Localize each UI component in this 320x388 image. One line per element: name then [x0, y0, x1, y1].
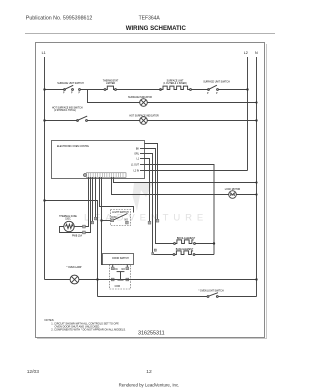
- svg-text:L1 OUT: L1 OUT: [131, 165, 140, 167]
- svg-text:L2: L2: [244, 51, 248, 55]
- wire stub GRL to bake element: [145, 154, 174, 255]
- svg-text:HOT SURFACE IND SWITCH: HOT SURFACE IND SWITCH: [52, 107, 83, 110]
- wire to light switch COM: [102, 220, 111, 222]
- oven light switch S4: [199, 290, 224, 297]
- svg-text:(1 OUTER & 1 INNER): (1 OUTER & 1 INNER): [163, 83, 187, 85]
- svg-text:COM: COM: [115, 286, 120, 288]
- wire stub L2 IN to L2 bus: [145, 170, 248, 172]
- svg-text:TEF364A: TEF364A: [139, 16, 161, 22]
- junction rung1-L2: [246, 88, 248, 90]
- lamp surface indicator: [128, 96, 152, 106]
- wire N bus: [256, 57, 258, 297]
- wire bottom rung: [45, 279, 71, 281]
- junction lamp bus: [96, 278, 98, 280]
- svg-text:NO: NO: [125, 220, 129, 222]
- node L2 label: [244, 51, 248, 55]
- wire pin to light switch NO loop: [100, 177, 134, 212]
- svg-text:THERMAL FUSE: THERMAL FUSE: [59, 215, 77, 218]
- switch hot surface indicator switch: [52, 107, 87, 122]
- svg-text:ELECTRONIC OVEN CONTRL: ELECTRONIC OVEN CONTRL: [57, 146, 90, 148]
- svg-text:* OVEN LIGHT SWITCH: * OVEN LIGHT SWITCH: [199, 290, 224, 292]
- svg-text:SURFACE INDICATOR: SURFACE INDICATOR: [128, 96, 152, 99]
- svg-text:NO: NO: [122, 269, 126, 271]
- surface unit element coil: [160, 80, 192, 91]
- wire stub BK to broil element: [145, 149, 175, 244]
- svg-text:NC: NC: [115, 269, 119, 271]
- switch surface unit switch SW2: [203, 81, 230, 95]
- junction N rung: [255, 181, 257, 183]
- wire pin to thermal fuse top: [85, 177, 88, 226]
- pin label GRL: [134, 154, 144, 156]
- junction rung3-N: [255, 119, 257, 121]
- svg-text:PWB 15A: PWB 15A: [72, 235, 82, 238]
- watermark logo: [133, 183, 154, 211]
- header publication number: [26, 16, 93, 22]
- electronic oven control U1: [52, 141, 145, 179]
- svg-text:THERMOSTAT: THERMOSTAT: [103, 80, 119, 83]
- svg-text:LEADVENTURE: LEADVENTURE: [84, 213, 208, 224]
- bake element coil: [173, 248, 214, 256]
- svg-text:SURFACE UNIT: SURFACE UNIT: [167, 80, 184, 83]
- wire pin end d: [94, 177, 97, 220]
- wire rung1 segment c: [191, 89, 208, 91]
- wire lock motor to N: [236, 194, 256, 196]
- svg-text:Publication No. 5995398612: Publication No. 5995398612: [26, 16, 93, 22]
- svg-text:Rendered by LeadVenture, Inc.: Rendered by LeadVenture, Inc.: [119, 383, 180, 388]
- connector on broil wire: [154, 249, 156, 251]
- svg-text:SURFACE UNIT SWITCH: SURFACE UNIT SWITCH: [57, 82, 84, 85]
- footer rendered by: [119, 383, 180, 388]
- wire rung1 right: [218, 89, 247, 91]
- pin label L1 OUT: [131, 165, 145, 167]
- svg-text:DOOR SWITCH: DOOR SWITCH: [112, 258, 129, 260]
- pin label L2 IN: [134, 171, 145, 173]
- header title WIRING SCHEMATIC: [126, 25, 187, 32]
- thermostat limiter TL1: [103, 80, 119, 91]
- thermal fuse F1: [59, 215, 85, 238]
- svg-text:WIRING SCHEMATIC: WIRING SCHEMATIC: [126, 25, 187, 32]
- wire pin to thermal fuse bottom: [85, 177, 90, 232]
- svg-text:BK: BK: [136, 149, 140, 151]
- svg-text:12/03: 12/03: [27, 369, 40, 375]
- junction rung3-L1: [43, 119, 45, 121]
- wire stub L1 to end square: [145, 159, 151, 225]
- svg-text:12: 12: [146, 369, 152, 375]
- wire rung3 right: [147, 120, 256, 122]
- door switch S3 feed loop: [103, 254, 134, 268]
- svg-text:316255311: 316255311: [138, 331, 165, 337]
- lock motor M1: [225, 189, 241, 198]
- connector strip P1: [84, 173, 126, 178]
- part number: [138, 331, 165, 337]
- wire L1 bus: [44, 57, 46, 280]
- svg-text:LIMITER: LIMITER: [106, 83, 115, 85]
- wire stub L1 OUT to elements right bus: [145, 165, 215, 255]
- svg-text:150C: 150C: [65, 219, 71, 221]
- footer date: [27, 369, 40, 375]
- junction light switch feed: [100, 219, 102, 221]
- svg-text:L2 IN: L2 IN: [134, 171, 140, 173]
- wire stub1 to end square: [145, 144, 159, 223]
- junction rung2-N: [255, 101, 257, 103]
- wire rung1 segment a: [80, 89, 104, 91]
- svg-text:GRL: GRL: [134, 154, 139, 156]
- broil element coil: [174, 238, 214, 245]
- junction elements right bus: [213, 242, 215, 244]
- switch surface unit switch SW1: [57, 82, 84, 95]
- svg-text:(1 SHOWN 1 TOTAL): (1 SHOWN 1 TOTAL): [54, 109, 76, 112]
- pin label BK: [136, 149, 145, 151]
- wire bottom rung b: [79, 279, 257, 281]
- node N label: [255, 51, 258, 55]
- light switch S2: [111, 210, 131, 226]
- junction rung-L1 lower: [43, 199, 45, 201]
- svg-text:* OVEN LAMP: * OVEN LAMP: [67, 266, 82, 269]
- watermark text: [84, 213, 208, 224]
- wire rung1 left: [45, 89, 65, 91]
- wire rung2 drop: [88, 90, 140, 103]
- header model number: [139, 16, 161, 22]
- junction bottom rung N: [255, 278, 257, 280]
- footer page number: [146, 369, 152, 375]
- wire rung2 right: [147, 102, 256, 104]
- connector on bake wire: [152, 253, 154, 255]
- wire rung3 middle: [87, 120, 139, 122]
- pin label L1: [136, 159, 144, 161]
- wire oven light switch rung: [98, 296, 257, 298]
- wire pin to lock motor rung: [112, 177, 229, 194]
- wire pin end c: [91, 177, 94, 224]
- junction rung1-L1: [43, 88, 45, 90]
- wire pin to N rung: [114, 177, 257, 182]
- junction lock motor N: [255, 193, 257, 195]
- svg-text:2. COMPONENTS WITH * DO NOT AP: 2. COMPONENTS WITH * DO NOT APPEAR ON AL…: [51, 328, 126, 332]
- notes text block: [45, 318, 127, 332]
- wire rung3 left: [45, 120, 78, 122]
- svg-text:N: N: [255, 51, 258, 55]
- wire pin to light switch COM and door switch: [102, 177, 104, 264]
- lamp hot surface indicator: [129, 114, 159, 124]
- wire L2 bus: [247, 57, 249, 171]
- wire rung1 segment b: [116, 89, 160, 91]
- door switch S3: [110, 265, 131, 290]
- oven lamp LP1: [67, 266, 82, 284]
- schematic border frame: [36, 43, 267, 340]
- svg-text:L1: L1: [42, 51, 46, 55]
- svg-text:SURFACE UNIT SWITCH: SURFACE UNIT SWITCH: [203, 81, 230, 84]
- header underline: [25, 33, 275, 35]
- wire rung L1 to lamp bus: [45, 201, 98, 297]
- node L1 label: [42, 51, 46, 55]
